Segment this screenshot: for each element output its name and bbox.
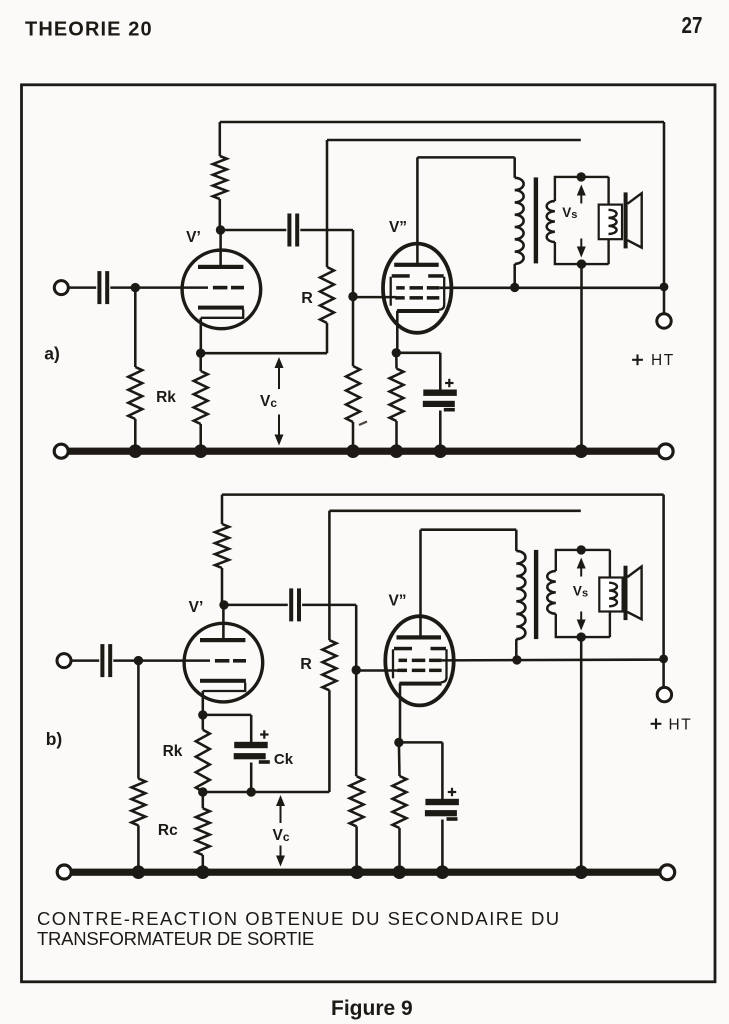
svg-text:TRANSFORMATEUR DE SORTIE: TRANSFORMATEUR DE SORTIE [37,928,314,949]
svg-text:b): b) [46,729,63,749]
svg-text:V’: V’ [186,229,201,246]
svg-text:a): a) [44,344,60,364]
svg-text:R: R [300,656,312,673]
svg-text:Figure 9: Figure 9 [331,997,413,1020]
svg-text:CONTRE-REACTION OBTENUE DU SEC: CONTRE-REACTION OBTENUE DU SECONDAIRE DU [37,908,561,929]
svg-text:HT: HT [669,717,693,734]
svg-text:HT: HT [651,352,675,369]
svg-text:Vc: Vc [272,827,289,844]
svg-text:Ck: Ck [274,751,294,768]
svg-text:27: 27 [682,12,703,39]
svg-text:V’: V’ [189,599,204,616]
svg-text:THEORIE 20: THEORIE 20 [25,19,153,41]
svg-text:Rc: Rc [158,822,178,839]
svg-text:R: R [301,290,313,307]
svg-text:Rk: Rk [163,743,183,760]
svg-text:V”: V” [388,593,406,610]
svg-text:V”: V” [389,219,407,236]
svg-text:Rk: Rk [156,389,176,406]
svg-text:Vc: Vc [260,393,277,410]
